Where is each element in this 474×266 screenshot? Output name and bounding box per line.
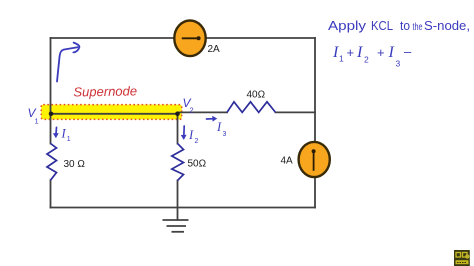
svg-text:to: to [400, 19, 410, 33]
svg-text:50Ω: 50Ω [188, 159, 207, 170]
svg-text:I: I [61, 127, 67, 141]
svg-text:Supernode: Supernode [73, 83, 137, 99]
svg-text:3: 3 [396, 59, 401, 69]
svg-text:the: the [413, 21, 423, 33]
svg-text:I: I [388, 44, 395, 61]
svg-text:4A: 4A [281, 156, 294, 167]
svg-text:2: 2 [195, 138, 199, 145]
svg-text:2: 2 [364, 55, 369, 65]
svg-text:I: I [188, 128, 194, 142]
svg-text:2: 2 [190, 106, 194, 115]
svg-text:1: 1 [339, 54, 344, 64]
svg-text:KCL: KCL [371, 19, 393, 33]
svg-text:+: + [347, 45, 355, 60]
svg-text:2A: 2A [208, 44, 221, 55]
svg-text:1: 1 [67, 136, 71, 143]
svg-text:3: 3 [223, 131, 227, 138]
svg-text:30 Ω: 30 Ω [64, 159, 86, 170]
svg-text:1: 1 [35, 117, 39, 126]
svg-text:Apply: Apply [328, 19, 367, 33]
svg-text:I: I [332, 44, 339, 61]
svg-text:I: I [216, 120, 222, 134]
svg-text:S-node,: S-node, [424, 19, 470, 33]
svg-text:40Ω: 40Ω [247, 90, 266, 101]
svg-text:+: + [377, 45, 385, 60]
svg-text:–: – [404, 44, 412, 59]
svg-text:I: I [356, 44, 363, 61]
